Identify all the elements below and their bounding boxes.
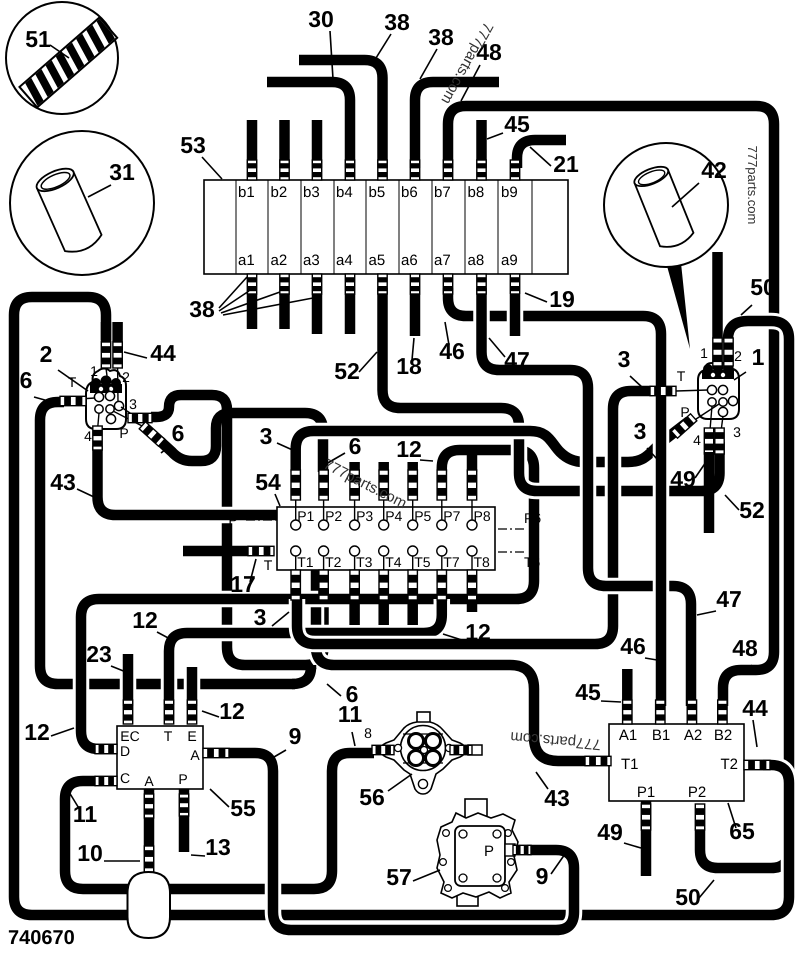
balloon 42 sleeve — [604, 143, 728, 349]
svg-text:10: 10 — [77, 840, 103, 866]
svg-text:T6: T6 — [524, 554, 541, 570]
leader 50b — [699, 880, 714, 898]
svg-text:55: 55 — [230, 795, 256, 821]
fitting fitting valve2 port3 — [128, 413, 152, 422]
leader 51 — [50, 45, 69, 58]
svg-text:44: 44 — [742, 695, 768, 721]
wire stub a9 (19) — [507, 294, 524, 336]
leader 38b — [420, 49, 437, 79]
svg-text:51: 51 — [25, 26, 51, 52]
fitting fitting P2 — [695, 804, 704, 830]
wire hose 9 — [229, 753, 574, 930]
leader 45b — [601, 701, 621, 702]
wire hose 21 — [517, 140, 566, 168]
leader 53 — [202, 157, 222, 179]
svg-text:45: 45 — [575, 679, 601, 705]
svg-text:23: 23 — [86, 641, 112, 667]
fitting fitting valve1 port4 — [704, 428, 713, 454]
leader 49a — [695, 462, 706, 478]
wire stub accumulator feed — [144, 789, 155, 874]
svg-text:P1: P1 — [637, 784, 655, 801]
svg-text:2: 2 — [734, 348, 742, 364]
svg-text:12: 12 — [465, 619, 491, 645]
svg-text:53: 53 — [180, 132, 206, 158]
fitting fitting T1 — [585, 756, 611, 765]
fitting fitting b8 — [477, 160, 486, 180]
leader 38c-4 — [223, 298, 313, 315]
block 55 valve block — [117, 726, 203, 789]
fitting fitting 10 accumulator — [144, 846, 153, 872]
balloon 51 wrapped hose — [6, 2, 118, 114]
wire stub T8 — [467, 598, 478, 612]
fitting fitting 56 left (8) — [372, 745, 394, 754]
svg-text:T4: T4 — [385, 554, 402, 570]
wire stub a4 — [345, 294, 356, 334]
svg-text:T1: T1 — [621, 756, 639, 773]
leader 49b — [624, 843, 641, 848]
fitting fitting T2 — [744, 760, 770, 769]
port T2 — [319, 546, 329, 556]
fitting fitting T-row — [379, 570, 388, 600]
svg-text:P2: P2 — [688, 784, 706, 801]
wire stub b1 — [247, 120, 258, 168]
leader 11b — [69, 792, 80, 810]
svg-text:49: 49 — [670, 466, 696, 492]
svg-text:57: 57 — [386, 864, 412, 890]
fitting fitting a6 — [410, 274, 419, 294]
wire stub P5 — [407, 462, 418, 472]
fitting fitting a7 — [443, 274, 452, 294]
fitting fitting b7 — [443, 160, 452, 180]
fitting fitting P-row — [350, 470, 359, 500]
fitting fitting T-row — [350, 570, 359, 600]
port P5 — [408, 520, 418, 530]
svg-text:13: 13 — [205, 834, 231, 860]
fitting fitting valve1 T — [650, 386, 676, 395]
wire stub 49 (valve1 port4) — [704, 452, 715, 533]
fitting fitting P-row — [408, 470, 417, 500]
svg-text:T2: T2 — [720, 756, 738, 773]
leader 23 — [111, 666, 126, 672]
wire stub 13 (P) — [179, 789, 190, 852]
wire hose 12 (T55 to T7) — [169, 599, 442, 705]
leader 11a — [352, 732, 355, 746]
wire hose 48 — [448, 106, 774, 706]
svg-text:P7: P7 — [443, 508, 460, 524]
svg-text:a2: a2 — [271, 252, 288, 269]
svg-text:2: 2 — [122, 369, 130, 385]
svg-text:a8: a8 — [468, 252, 485, 269]
svg-text:11: 11 — [338, 701, 363, 727]
fitting fitting P-row — [319, 470, 328, 500]
wire hose 12 (D55 to P7) — [81, 450, 534, 749]
svg-text:38: 38 — [384, 9, 410, 35]
leader 50a — [741, 305, 752, 315]
fitting fitting a3 — [312, 274, 321, 294]
svg-text:30: 30 — [308, 6, 334, 32]
svg-text:3: 3 — [634, 418, 647, 444]
svg-text:2: 2 — [40, 341, 53, 367]
leader 12b — [443, 634, 465, 641]
svg-text:43: 43 — [50, 469, 76, 495]
wire hose 3 (T1-54 to valve1 T) — [297, 391, 663, 644]
fitting fitting 56 right — [450, 745, 472, 754]
leader 6a — [34, 397, 52, 402]
wire stub T5 — [407, 598, 418, 625]
wire stub T3 — [349, 598, 360, 625]
wire hose 6 merge elbow — [292, 665, 311, 684]
leader 12e — [51, 728, 74, 736]
leader 42 — [672, 183, 699, 207]
svg-text:P: P — [484, 843, 494, 860]
leader 52b — [725, 495, 739, 510]
svg-text:47: 47 — [504, 347, 530, 373]
leader 3c — [277, 443, 297, 452]
svg-text:T: T — [264, 557, 273, 573]
leader 57 — [413, 870, 440, 881]
svg-text:12: 12 — [132, 607, 158, 633]
svg-text:50: 50 — [675, 884, 701, 910]
port P (hidden) — [246, 519, 277, 521]
port T5 — [408, 546, 418, 556]
wire stub 45 (A1) — [622, 669, 633, 708]
svg-text:6: 6 — [172, 420, 185, 446]
svg-text:44: 44 — [150, 340, 176, 366]
leader 6c — [327, 684, 341, 696]
leader 52a — [359, 352, 377, 372]
leader 17 — [250, 559, 256, 582]
svg-text:P: P — [119, 425, 128, 441]
fitting fitting A-bottom — [144, 794, 153, 818]
svg-text:a9: a9 — [501, 252, 518, 269]
fitting fitting a9 — [510, 274, 519, 294]
wire hose 6 (valve2 port3 to T2 of 54) — [151, 395, 324, 665]
svg-text:P1: P1 — [297, 508, 314, 524]
wire hose 46 (a7 elbow) — [448, 288, 640, 316]
fitting fitting a2 — [280, 274, 289, 294]
leader 2 — [58, 370, 88, 391]
port P6 (hidden) — [498, 528, 524, 530]
fitting fitting P-row — [467, 470, 476, 500]
wire stub b2 — [279, 120, 290, 168]
port T6 (hidden) — [498, 551, 524, 553]
fitting fitting b2 — [280, 160, 289, 180]
port P1 — [291, 520, 301, 530]
leader 46a — [445, 322, 449, 345]
svg-text:12: 12 — [24, 719, 50, 745]
svg-text:a4: a4 — [336, 252, 353, 269]
svg-text:52: 52 — [334, 358, 360, 384]
svg-text:A: A — [190, 747, 200, 763]
svg-text:b3: b3 — [303, 184, 320, 201]
svg-text:P6: P6 — [524, 510, 541, 526]
fitting fitting T — [164, 700, 173, 724]
fitting fitting T-row — [319, 570, 328, 600]
wire stub a6 (18) — [410, 294, 421, 336]
wire hose 50 — [700, 321, 789, 868]
wire hose 30 — [267, 82, 350, 168]
svg-text:T: T — [677, 368, 686, 384]
fitting fitting a1 — [247, 274, 256, 294]
svg-text:18: 18 — [396, 353, 422, 379]
wire hose 46 (down to B1) — [640, 316, 661, 706]
fitting fitting 17 — [248, 546, 274, 555]
leader 1 — [734, 372, 746, 380]
svg-text:38: 38 — [428, 24, 454, 50]
wire stub b3 — [312, 120, 323, 168]
wire stub a1 — [247, 294, 258, 329]
leader 44a — [124, 352, 147, 358]
leader 3a — [630, 376, 643, 388]
wire stub 49 (P1) — [641, 801, 652, 876]
fitting fitting T-row — [467, 570, 476, 600]
fitting fitting b4 — [345, 160, 354, 180]
fitting fitting a4 — [345, 274, 354, 294]
svg-text:3: 3 — [618, 346, 631, 372]
accumulator 10 — [128, 872, 171, 938]
leader 21 — [530, 147, 551, 166]
svg-text:B1: B1 — [652, 727, 670, 744]
svg-text:12: 12 — [219, 698, 245, 724]
leader 38a — [376, 34, 391, 58]
svg-text:T2: T2 — [325, 554, 342, 570]
svg-text:P2: P2 — [325, 508, 342, 524]
fitting fitting valve2 port2 — [113, 342, 122, 368]
wire hose 38 (to b5) — [299, 60, 383, 168]
valve 2 solenoid valve — [79, 322, 146, 430]
fitting fitting T-row — [291, 570, 300, 600]
leader 3d — [272, 612, 289, 626]
leader 12d — [202, 711, 219, 717]
wire hose to valve1 port1 — [712, 252, 723, 338]
svg-text:A2: A2 — [684, 727, 702, 744]
leader 43b — [536, 772, 548, 789]
fitting fitting D — [95, 744, 117, 753]
leader 19 — [525, 293, 547, 302]
leader 13 — [191, 855, 205, 856]
leader 46b — [645, 658, 657, 660]
port P8 — [467, 520, 477, 530]
fitting fitting b3 — [312, 160, 321, 180]
svg-text:b6: b6 — [401, 184, 418, 201]
block 65 manifold — [609, 724, 744, 801]
svg-text:6: 6 — [20, 367, 33, 393]
wire hose 44 (border) — [14, 297, 789, 915]
fitting fitting P-row — [379, 470, 388, 500]
port P4 — [379, 520, 389, 530]
fitting fitting valve2 port4 — [93, 426, 102, 450]
leader 45t — [487, 133, 503, 139]
svg-text:D: D — [120, 743, 130, 759]
fitting fitting a8 — [477, 274, 486, 294]
fitting fitting b9 — [510, 160, 519, 180]
svg-text:31: 31 — [109, 159, 135, 185]
fitting fitting B2 — [718, 700, 727, 724]
leader 9a — [274, 750, 286, 757]
wire hose 38 (to b6) — [415, 82, 499, 168]
svg-text:B2: B2 — [714, 727, 732, 744]
fitting fitting a5 — [378, 274, 387, 294]
svg-text:T1: T1 — [297, 554, 314, 570]
svg-text:EC: EC — [120, 728, 139, 744]
svg-text:A: A — [144, 773, 154, 789]
svg-text:A1: A1 — [619, 727, 637, 744]
svg-text:b7: b7 — [434, 184, 451, 201]
leader 47a — [489, 338, 505, 357]
svg-text:b1: b1 — [238, 184, 255, 201]
fitting fitting A-right — [203, 748, 229, 757]
leader 30 — [330, 31, 333, 79]
svg-text:4: 4 — [84, 428, 92, 444]
svg-text:9: 9 — [536, 863, 549, 889]
leader 38c-2 — [219, 291, 249, 311]
svg-text:a6: a6 — [401, 252, 418, 269]
svg-text:T7: T7 — [443, 554, 460, 570]
fitting fitting A1 — [623, 700, 632, 724]
fitting fitting b5 — [378, 160, 387, 180]
balloon 31 sleeve — [10, 131, 154, 275]
wire stub P8 — [467, 452, 478, 472]
wire stub E — [184, 667, 201, 706]
wire stub P3 — [349, 462, 360, 472]
port T1 — [291, 546, 301, 556]
fitting fitting P-bottom — [179, 794, 188, 816]
fitting fitting T-row — [437, 570, 446, 600]
fitting fitting valve2 port1 — [101, 342, 110, 368]
port T7 — [437, 546, 447, 556]
svg-text:3: 3 — [733, 424, 741, 440]
leader 56 — [388, 774, 412, 791]
fitting fitting E — [187, 700, 196, 724]
fitting fitting b6 — [410, 160, 419, 180]
wire hose 52 — [383, 288, 720, 491]
leader 65 — [728, 803, 736, 828]
fitting fitting valve1 port3 — [715, 428, 724, 454]
svg-text:P8: P8 — [474, 508, 491, 524]
svg-text:48: 48 — [732, 635, 758, 661]
pump 57 — [437, 799, 518, 906]
svg-text:50: 50 — [750, 274, 776, 300]
svg-text:T5: T5 — [414, 554, 431, 570]
svg-text:C: C — [120, 770, 130, 786]
svg-text:42: 42 — [701, 157, 727, 183]
wire stub P4 — [378, 462, 389, 472]
svg-text:49: 49 — [597, 819, 623, 845]
fitting fitting C — [95, 776, 117, 785]
svg-text:T3: T3 — [356, 554, 373, 570]
manifold 56 — [380, 712, 482, 794]
svg-text:3: 3 — [129, 396, 137, 412]
svg-text:1: 1 — [752, 344, 765, 370]
svg-text:a7: a7 — [434, 252, 451, 269]
fitting fitting B1 — [656, 700, 665, 724]
fitting fitting P-row — [437, 470, 446, 500]
svg-text:b5: b5 — [369, 184, 386, 201]
port T8 — [467, 546, 477, 556]
valve 1 solenoid valve — [676, 361, 739, 443]
svg-text:P3: P3 — [356, 508, 373, 524]
svg-text:4: 4 — [693, 432, 701, 448]
wire hose 47 — [482, 288, 692, 706]
leader 43a — [77, 489, 94, 497]
fitting fitting valve1 port1 — [713, 338, 722, 366]
svg-text:b2: b2 — [271, 184, 288, 201]
wire hose 17 — [183, 546, 250, 557]
svg-text:46: 46 — [620, 633, 646, 659]
fitting fitting P-row — [291, 470, 300, 500]
wire stub 23 (EC) — [120, 654, 137, 706]
svg-text:3: 3 — [254, 604, 267, 630]
leader 12c — [157, 632, 172, 640]
fitting fitting valve1 P — [671, 414, 697, 438]
svg-text:a1: a1 — [238, 252, 255, 269]
block 53 manifold — [204, 180, 568, 274]
svg-text:740670: 740670 — [8, 927, 75, 949]
port P7 — [437, 520, 447, 530]
leader 3b — [647, 448, 657, 459]
svg-text:6: 6 — [349, 433, 362, 459]
svg-text:T8: T8 — [474, 554, 491, 570]
svg-text:P5: P5 — [414, 508, 431, 524]
port P3 — [350, 520, 360, 530]
svg-text:1: 1 — [90, 363, 98, 379]
fitting fitting T-row — [408, 570, 417, 600]
svg-text:46: 46 — [439, 338, 465, 364]
svg-text:a3: a3 — [303, 252, 320, 269]
wire stub T4 — [378, 598, 389, 625]
leader 44b — [753, 720, 757, 747]
block 54 manifold — [277, 507, 495, 570]
fitting fitting P1 — [641, 804, 650, 830]
svg-text:54: 54 — [255, 469, 281, 495]
svg-text:777parts.com: 777parts.com — [745, 146, 760, 225]
leader 48t — [461, 65, 480, 101]
fitting fitting valve1 port2 — [724, 338, 733, 366]
svg-text:45: 45 — [504, 111, 530, 137]
leader 55 — [210, 789, 229, 807]
svg-text:3: 3 — [260, 423, 273, 449]
svg-text:21: 21 — [553, 151, 579, 177]
svg-text:P: P — [228, 512, 237, 528]
port T4 — [379, 546, 389, 556]
svg-text:b4: b4 — [336, 184, 353, 201]
leader 9b — [551, 854, 565, 874]
svg-text:E: E — [187, 728, 196, 744]
svg-text:52: 52 — [739, 497, 765, 523]
wire stub a3 — [312, 294, 323, 334]
svg-text:8: 8 — [364, 725, 372, 741]
svg-text:b8: b8 — [468, 184, 485, 201]
svg-text:65: 65 — [729, 818, 755, 844]
leader 38c-1 — [219, 277, 247, 308]
svg-text:56: 56 — [359, 784, 385, 810]
wire hose 43 — [98, 446, 591, 761]
svg-text:19: 19 — [549, 286, 575, 312]
svg-text:47: 47 — [716, 586, 742, 612]
leader 47b — [697, 611, 716, 615]
svg-text:b9: b9 — [501, 184, 518, 201]
port P2 — [319, 520, 329, 530]
svg-text:P: P — [680, 404, 689, 420]
wire hose 6 (valve2 T, bottom dashed run) — [40, 402, 295, 684]
leader 6b — [161, 445, 171, 453]
fitting fitting A2 — [687, 700, 696, 724]
wire stub a2 — [279, 294, 290, 329]
port T3 — [350, 546, 360, 556]
leader 10 — [104, 860, 140, 862]
wire stub 45 (b8) — [476, 120, 487, 168]
leader 12a — [420, 460, 433, 461]
